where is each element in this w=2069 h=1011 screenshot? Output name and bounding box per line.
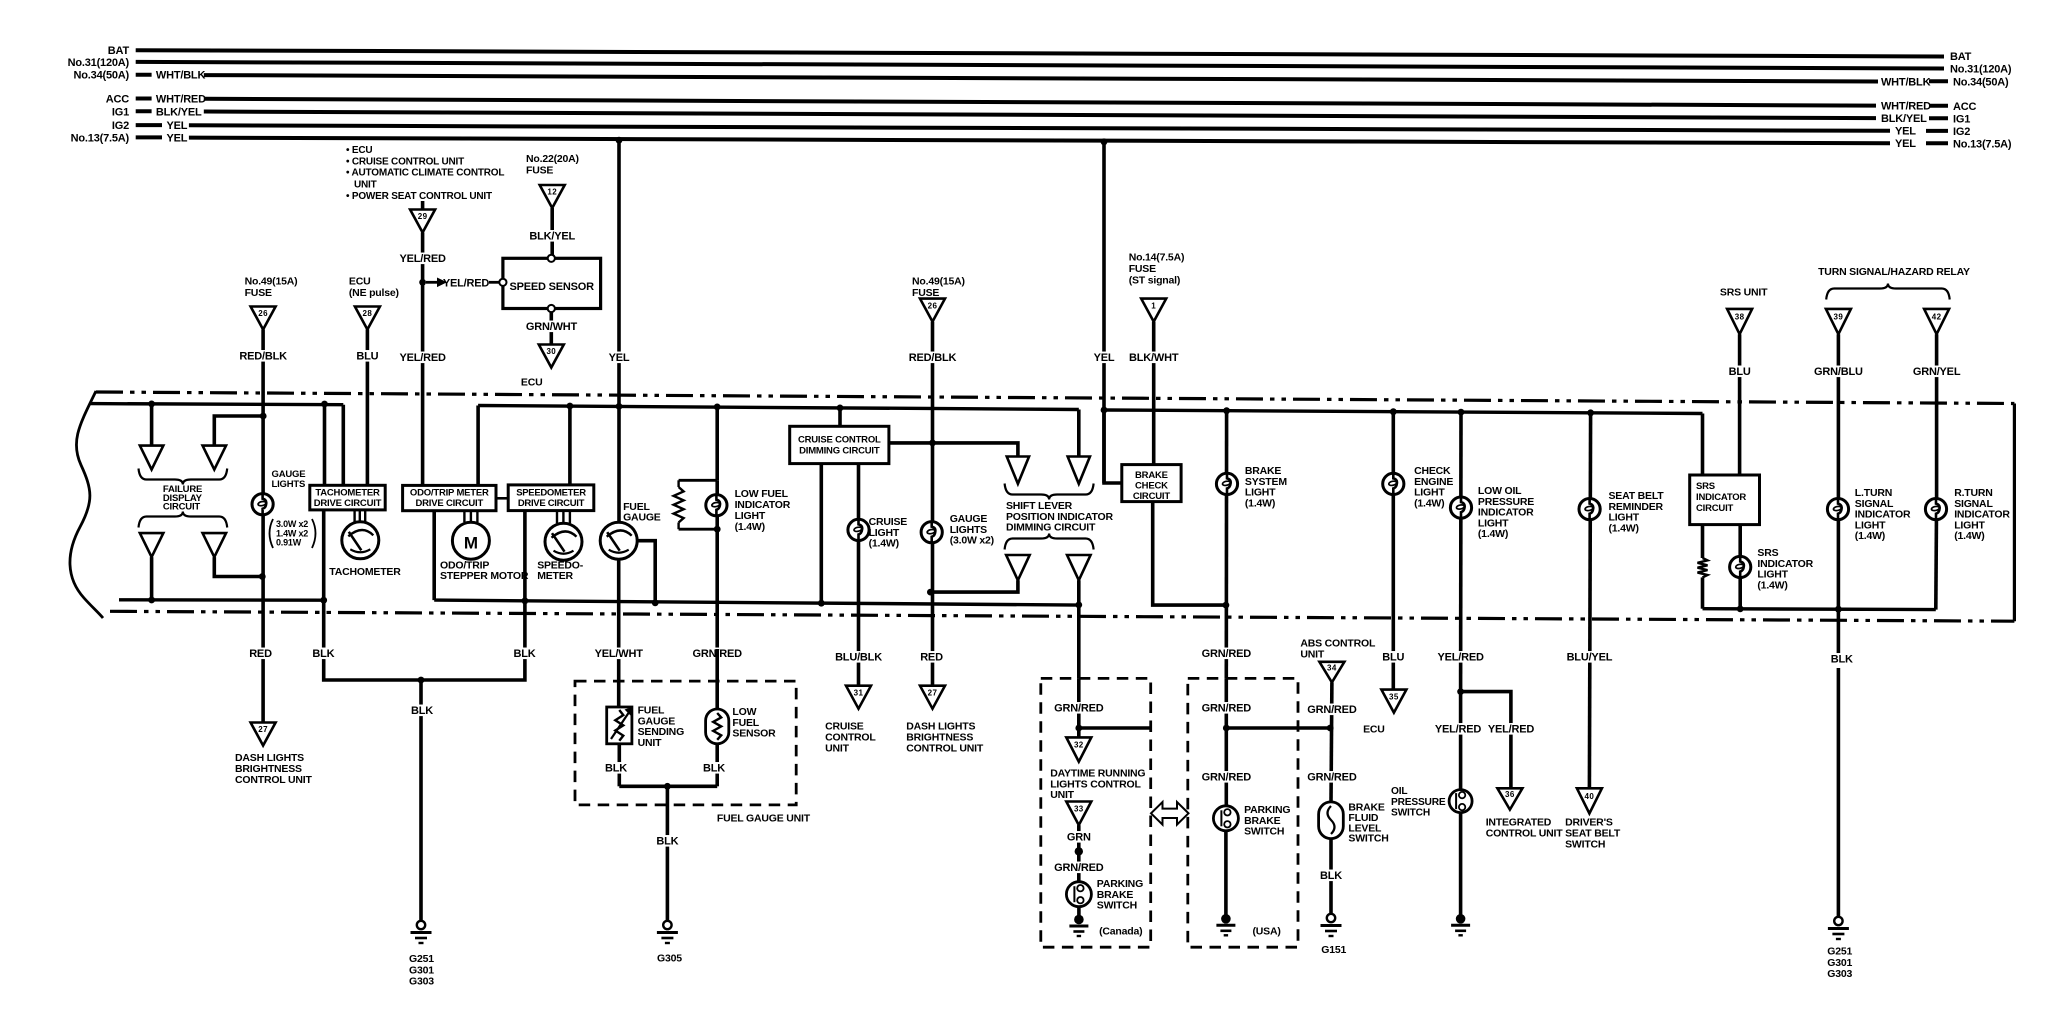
svg-text:34: 34 xyxy=(1327,663,1337,672)
bottom bus segment D xyxy=(1703,607,1936,611)
svg-text:No.34(50A): No.34(50A) xyxy=(1953,77,2009,89)
R.turn signal indicator bulb L11 xyxy=(1925,499,1946,520)
svg-text:• AUTOMATIC CLIMATE CONTROL: • AUTOMATIC CLIMATE CONTROL xyxy=(346,168,504,179)
wire BLK sending unit xyxy=(617,744,621,787)
svg-text:BLU/BLK: BLU/BLK xyxy=(835,652,882,664)
wire BLU connector38 to SRS indicator circuit xyxy=(1738,334,1742,475)
svg-text:No.34(50A): No.34(50A) xyxy=(74,70,130,82)
svg-text:(1.4W): (1.4W) xyxy=(869,538,899,550)
wire resistor to bottom bus xyxy=(1701,577,1705,608)
failure display triangle lower-right xyxy=(203,533,227,557)
svg-text:• POWER SEAT CONTROL UNIT: • POWER SEAT CONTROL UNIT xyxy=(346,191,492,202)
svg-text:DIMMING CIRCUIT: DIMMING CIRCUIT xyxy=(799,446,880,457)
connector 27 left xyxy=(251,723,276,746)
wire YEL/RED oil pressure xyxy=(1436,651,1485,663)
wire check engine light BLU xyxy=(1390,408,1397,415)
connector 36 xyxy=(1497,788,1522,809)
svg-text:SRS UNIT: SRS UNIT xyxy=(1720,287,1768,299)
ground G251 G301 G303 left xyxy=(417,921,425,929)
svg-text:CIRCUIT: CIRCUIT xyxy=(163,502,201,513)
connector 39 xyxy=(1826,309,1851,334)
svg-text:OIL: OIL xyxy=(1391,786,1407,797)
svg-text:BLK: BLK xyxy=(656,836,678,848)
wire cruise dim right to shift lever triangle 1 xyxy=(889,443,1018,457)
wire GRN/BLU connector39 to L.turn indicator xyxy=(1837,334,1841,498)
ground oil pressure switch xyxy=(1456,914,1466,924)
pins odo box to motor xyxy=(463,511,465,523)
wire ECU-list to connector 29 xyxy=(421,201,425,210)
svg-text:1: 1 xyxy=(1151,301,1156,310)
SRS indicator bulb L9 xyxy=(1730,556,1751,577)
svg-text:WHT/RED: WHT/RED xyxy=(1881,101,1931,113)
pin speed sensor bottom xyxy=(548,305,555,312)
connector 34 xyxy=(1319,662,1344,683)
bus BAT xyxy=(136,50,1944,56)
wire jog to failure display triangle 2 xyxy=(214,416,263,446)
wire L.turn bulb and BLK ground drop xyxy=(1837,499,1841,655)
svg-text:40: 40 xyxy=(1585,792,1595,801)
svg-text:YEL/RED: YEL/RED xyxy=(1488,724,1535,736)
shift lever triangle lower-left xyxy=(1006,555,1030,580)
svg-text:IG2: IG2 xyxy=(1953,126,1970,138)
wire GRN/RED to usa parking brake switch xyxy=(1225,678,1229,805)
wire BLK/YEL fuse12 to speed sensor xyxy=(550,208,554,255)
fuel gauge unit dashed box xyxy=(575,681,796,805)
wire oil switch to ground xyxy=(1459,813,1463,919)
wire BLK speedo ground join xyxy=(421,649,525,680)
odo/trip meter drive circuit box xyxy=(403,485,496,510)
wire label RED dash lights left xyxy=(249,648,272,660)
wire BLK join to ground G305 xyxy=(619,784,717,788)
svg-text:CRUISE CONTROL: CRUISE CONTROL xyxy=(798,435,881,446)
svg-text:29: 29 xyxy=(418,212,428,221)
svg-text:No.14(7.5A): No.14(7.5A) xyxy=(1129,252,1185,264)
parking brake switch S1 (Canada) xyxy=(1066,882,1091,907)
svg-text:BLU: BLU xyxy=(356,351,378,363)
svg-text:No.13(7.5A): No.13(7.5A) xyxy=(1953,138,2012,150)
svg-text:38: 38 xyxy=(1735,313,1745,322)
wire bus to cruise dimming box xyxy=(838,408,842,426)
svg-text:ECU: ECU xyxy=(1363,724,1385,736)
svg-text:YEL: YEL xyxy=(1895,126,1916,138)
svg-text:SENSOR: SENSOR xyxy=(732,728,776,740)
connector 30 xyxy=(539,345,564,368)
svg-text:SWITCH: SWITCH xyxy=(1097,900,1137,912)
cluster band torn left edge xyxy=(70,391,103,618)
wire SRS box right pin to SRS bulb xyxy=(1738,525,1742,610)
node junction tach ground xyxy=(320,597,327,604)
node junction low fuel feed xyxy=(714,404,721,411)
connector 40 xyxy=(1577,788,1602,813)
svg-text:GRN: GRN xyxy=(1067,832,1091,844)
wire speedo ground to bottom bus BLK xyxy=(523,511,527,649)
wire tach ground to bottom bus xyxy=(322,510,326,612)
svg-text:CONTROL UNIT: CONTROL UNIT xyxy=(906,743,984,755)
svg-text:BAT: BAT xyxy=(108,45,130,57)
wire RED/BLK connector26 into cluster xyxy=(261,330,265,417)
svg-text:30: 30 xyxy=(546,347,556,356)
svg-text:UNIT: UNIT xyxy=(354,180,377,191)
svg-text:BLU: BLU xyxy=(1382,652,1404,664)
svg-text:No.49(15A): No.49(15A) xyxy=(912,276,965,288)
SRS indicator circuit box xyxy=(1690,475,1760,525)
svg-text:ACC: ACC xyxy=(106,94,129,106)
cluster band bottom border xyxy=(110,611,2014,621)
wire RED/BLK through cluster (gauge lights) xyxy=(261,416,265,723)
odo/trip stepper motor M2 xyxy=(452,522,489,559)
bus ACC WHT/RED xyxy=(136,97,152,101)
svg-text:39: 39 xyxy=(1834,313,1844,322)
shift lever triangle upper-right xyxy=(1068,457,1090,484)
svg-text:DIMMING CIRCUIT: DIMMING CIRCUIT xyxy=(1006,522,1096,534)
svg-text:CHECK: CHECK xyxy=(1135,480,1168,491)
svg-text:(Canada): (Canada) xyxy=(1099,926,1142,938)
svg-text:(1.4W): (1.4W) xyxy=(1757,579,1787,591)
wire bus to speedo box pin xyxy=(568,406,572,485)
connector 32 xyxy=(1066,737,1091,761)
wire parallel top bar xyxy=(679,479,718,482)
bus IG2 YEL xyxy=(136,123,162,127)
svg-text:28: 28 xyxy=(363,309,373,318)
svg-text:BLK: BLK xyxy=(605,763,627,775)
cluster band right border xyxy=(2013,404,2016,622)
svg-text:ODO/TRIP METER: ODO/TRIP METER xyxy=(410,488,489,499)
svg-text:26: 26 xyxy=(928,301,938,310)
svg-text:DRIVE CIRCUIT: DRIVE CIRCUIT xyxy=(415,498,483,509)
tachometer meter M1 xyxy=(342,522,379,559)
svg-text:G303: G303 xyxy=(1827,968,1852,980)
svg-text:• ECU: • ECU xyxy=(346,145,372,156)
wire bus to tach box pin xyxy=(323,404,327,485)
wire parallel bottom bar xyxy=(679,528,718,531)
wire YEL/WHT to fuel gauge sending unit xyxy=(594,648,643,660)
speed sensor U1 xyxy=(503,258,601,308)
svg-text:RED/BLK: RED/BLK xyxy=(239,351,287,363)
resistor low fuel parallel xyxy=(677,480,679,487)
svg-text:G301: G301 xyxy=(409,964,434,976)
connector 29 xyxy=(410,210,435,233)
svg-text:GRN/BLU: GRN/BLU xyxy=(1814,366,1863,378)
pins tach box to meter xyxy=(353,510,355,522)
cruise control dimming circuit box xyxy=(790,426,889,463)
wire canada junction to box edge xyxy=(1079,726,1151,730)
svg-text:SPEEDOMETER: SPEEDOMETER xyxy=(516,487,586,498)
ground G151 xyxy=(1327,914,1335,922)
svg-text:GRN/RED: GRN/RED xyxy=(1054,703,1104,715)
svg-text:No.22(20A): No.22(20A) xyxy=(526,153,579,165)
svg-text:CIRCUIT: CIRCUIT xyxy=(1696,503,1734,514)
wire BLU to ECU connector 35 xyxy=(1382,651,1405,663)
svg-text:42: 42 xyxy=(1932,313,1942,322)
svg-text:WHT/BLK: WHT/BLK xyxy=(1881,76,1931,88)
svg-text:YEL: YEL xyxy=(1094,352,1115,364)
svg-text:IG1: IG1 xyxy=(1953,113,1970,125)
svg-text:YEL/RED: YEL/RED xyxy=(399,352,446,364)
svg-text:No.31(120A): No.31(120A) xyxy=(68,57,130,69)
bus inside cluster top-left xyxy=(90,404,343,405)
oil pressure switch S4 xyxy=(1449,790,1472,813)
svg-text:GRN/RED: GRN/RED xyxy=(1307,772,1357,784)
wire BLK sensor xyxy=(715,744,719,787)
svg-text:GRN/RED: GRN/RED xyxy=(1307,704,1357,716)
svg-text:GRN/RED: GRN/RED xyxy=(1202,648,1252,660)
pin speed sensor top xyxy=(548,255,555,262)
wire GRN below connector 33 xyxy=(1077,825,1081,894)
svg-text:TURN SIGNAL/HAZARD RELAY: TURN SIGNAL/HAZARD RELAY xyxy=(1818,266,1970,278)
svg-text:CIRCUIT: CIRCUIT xyxy=(1133,491,1171,502)
brace shift lever lower xyxy=(1005,534,1094,550)
canada dashed box xyxy=(1041,678,1151,947)
svg-text:GRN/RED: GRN/RED xyxy=(1054,862,1104,874)
wire shift lower-right to Canada GRN/RED drop xyxy=(1077,580,1081,678)
bus inside cluster segment2 xyxy=(478,406,1079,410)
svg-text:UNIT: UNIT xyxy=(825,743,849,755)
svg-text:(1.4W): (1.4W) xyxy=(1954,530,1984,542)
svg-text:YEL: YEL xyxy=(167,120,188,132)
wire shift lower-left to gauge light wire xyxy=(930,580,1018,592)
svg-text:G151: G151 xyxy=(1321,944,1346,956)
cluster band top border xyxy=(96,392,2014,404)
brace shift lever upper xyxy=(1005,484,1094,500)
bus No.13(7.5A) YEL xyxy=(136,135,162,139)
svg-text:RED/BLK: RED/BLK xyxy=(909,352,957,364)
svg-text:DRIVE CIRCUIT: DRIVE CIRCUIT xyxy=(518,498,585,509)
brake system light bulb L5 xyxy=(1216,473,1237,494)
shift lever triangle lower-right xyxy=(1067,555,1091,580)
svg-text:TACHOMETER: TACHOMETER xyxy=(329,566,401,578)
low fuel indicator bulb L2 xyxy=(715,480,719,649)
svg-text:(1.4W): (1.4W) xyxy=(1245,497,1275,509)
wire arrow YEL/RED to speed sensor xyxy=(426,281,437,284)
svg-text:YEL/RED: YEL/RED xyxy=(1437,652,1484,664)
svg-text:GRN/RED: GRN/RED xyxy=(1202,703,1252,715)
tachometer drive circuit box xyxy=(310,485,385,510)
svg-text:26: 26 xyxy=(258,309,268,318)
svg-text:BLK/YEL: BLK/YEL xyxy=(1881,113,1927,125)
wire fuel gauge right tap to bottom bus xyxy=(637,541,655,603)
svg-text:FUSE: FUSE xyxy=(245,287,272,299)
svg-text:METER: METER xyxy=(537,570,573,582)
svg-text:G303: G303 xyxy=(409,976,434,988)
svg-text:IG1: IG1 xyxy=(112,106,129,118)
wire bus corner to shift lever triangle 2 xyxy=(1077,410,1081,457)
cruise light bulb L3 xyxy=(848,519,869,540)
pin speed sensor left xyxy=(499,279,506,286)
svg-text:UNIT: UNIT xyxy=(1300,649,1324,661)
svg-text:SWITCH: SWITCH xyxy=(1391,808,1430,819)
svg-text:YEL/RED: YEL/RED xyxy=(399,253,446,265)
svg-text:PRESSURE: PRESSURE xyxy=(1391,797,1446,808)
svg-text:YEL: YEL xyxy=(1895,138,1916,150)
svg-text:BLK: BLK xyxy=(411,705,433,717)
connector 38 xyxy=(1727,309,1752,334)
svg-text:GRN/WHT: GRN/WHT xyxy=(526,321,578,333)
wire bus corner down to SRS box xyxy=(1701,414,1705,476)
svg-text:G251: G251 xyxy=(1827,946,1852,958)
svg-text:YEL/WHT: YEL/WHT xyxy=(595,648,644,660)
wire jog lower to gauge-light wire xyxy=(214,557,262,576)
connector 42 xyxy=(1924,309,1949,334)
connector 27 right xyxy=(920,686,945,709)
wire GRN/RED to low fuel sensor xyxy=(693,648,742,660)
wire BLU connector28 to tachometer drive circuit xyxy=(366,330,370,486)
low fuel sensor R2 xyxy=(715,649,719,709)
svg-text:INDICATOR: INDICATOR xyxy=(1696,492,1746,503)
failure display triangle upper-left xyxy=(140,446,164,470)
svg-text:SWITCH: SWITCH xyxy=(1244,826,1284,838)
wire cruise light branch xyxy=(857,464,861,686)
wire BLK/WHT connector1 to brake check circuit xyxy=(1152,322,1156,465)
svg-text:BLU: BLU xyxy=(1729,366,1751,378)
svg-text:CONTROL UNIT: CONTROL UNIT xyxy=(1486,828,1564,840)
connector 28 xyxy=(355,307,380,330)
svg-text:GRN/YEL: GRN/YEL xyxy=(1913,366,1961,378)
svg-text:BLU/YEL: BLU/YEL xyxy=(1567,652,1613,664)
wire YEL/RED branch to integrated control unit xyxy=(1461,692,1511,789)
wire brake system light GRN/RED xyxy=(1223,407,1230,414)
speedometer drive circuit box xyxy=(508,485,594,511)
ground canada xyxy=(1074,915,1084,925)
wire brake check ground to brake system wire xyxy=(1153,502,1226,605)
wire seat belt reminder BLU/YEL xyxy=(1587,409,1594,416)
svg-text:BLK: BLK xyxy=(312,648,334,660)
svg-text:GRN/RED: GRN/RED xyxy=(1202,772,1252,784)
ground G305 xyxy=(663,921,671,929)
wire SRS box left pin to resistor xyxy=(1701,525,1705,558)
svg-text:BLK/YEL: BLK/YEL xyxy=(156,106,202,118)
svg-text:M: M xyxy=(464,534,478,553)
svg-text:CONTROL UNIT: CONTROL UNIT xyxy=(235,774,313,786)
wire BLK tach ground join xyxy=(324,612,421,921)
wire BLU/BLK to cruise control unit xyxy=(834,651,883,663)
ground usa xyxy=(1221,914,1231,924)
svg-text:(1.4W): (1.4W) xyxy=(1478,528,1508,540)
svg-text:32: 32 xyxy=(1074,741,1084,750)
connector 26 second xyxy=(920,299,945,322)
brace turn signal relay xyxy=(1826,284,1950,300)
wire BLK to G151 xyxy=(1329,839,1333,916)
svg-text:SRS: SRS xyxy=(1696,481,1715,492)
svg-text:36: 36 xyxy=(1505,790,1515,799)
bus inside cluster segment3 xyxy=(1104,410,1703,414)
wire label RED dash lights right xyxy=(920,651,943,663)
svg-text:BLK: BLK xyxy=(513,648,535,660)
node junction cruise dimming feed xyxy=(837,405,844,412)
connector 31 xyxy=(846,686,871,709)
gauge lights bulb L1 xyxy=(252,494,273,515)
shift lever triangle upper-left xyxy=(1007,457,1029,484)
svg-text:BLK/YEL: BLK/YEL xyxy=(529,231,575,243)
svg-text:0.91W: 0.91W xyxy=(276,538,302,548)
wire YEL from No.13 bus to fuel gauge xyxy=(616,137,623,144)
node splice GRN/GRN-RED xyxy=(1075,847,1083,855)
svg-text:FUSE: FUSE xyxy=(1129,263,1156,275)
svg-text:(USA): (USA) xyxy=(1253,926,1281,938)
svg-text:(3.0W x2): (3.0W x2) xyxy=(950,535,994,547)
pins speedo box to meter xyxy=(556,511,558,524)
bus No.34(50A) WHT/BLK xyxy=(136,73,152,77)
svg-text:(1.4W): (1.4W) xyxy=(1855,530,1885,542)
svg-text:UNIT: UNIT xyxy=(1050,789,1074,801)
low oil pressure indicator bulb L7 xyxy=(1450,497,1471,518)
wire R.turn bulb to bottom bus xyxy=(1934,499,1938,610)
connector 12 xyxy=(540,185,565,208)
svg-text:TACHOMETER: TACHOMETER xyxy=(315,488,380,499)
svg-text:No.31(120A): No.31(120A) xyxy=(1950,64,2012,76)
svg-text:(NE pulse): (NE pulse) xyxy=(349,287,399,299)
svg-text:27: 27 xyxy=(928,688,938,697)
svg-text:No.49(15A): No.49(15A) xyxy=(245,276,298,288)
svg-text:G251: G251 xyxy=(409,953,434,965)
wire bus segment2 corner to odo box xyxy=(476,406,480,486)
check engine light bulb L6 xyxy=(1383,473,1404,494)
bottom bus segment B xyxy=(434,600,1079,605)
svg-text:BRAKE: BRAKE xyxy=(1135,470,1168,481)
wire triangle to bottom bus xyxy=(150,557,154,600)
wire to failure display triangle 1 xyxy=(150,404,154,446)
brace failure display lower xyxy=(139,512,228,528)
svg-text:WHT/BLK: WHT/BLK xyxy=(156,70,206,82)
usa dashed box xyxy=(1188,678,1298,947)
svg-text:12: 12 xyxy=(547,188,557,197)
svg-text:ECU: ECU xyxy=(521,377,543,389)
svg-text:DRIVE CIRCUIT: DRIVE CIRCUIT xyxy=(314,498,382,509)
wire GRN/RED brake system light drop labels xyxy=(1202,648,1251,660)
brake check circuit box xyxy=(1122,465,1181,502)
svg-text:ACC: ACC xyxy=(1953,101,1976,113)
svg-text:(1.4W): (1.4W) xyxy=(1414,497,1444,509)
wire GRN/WHT speed sensor to connector 30 xyxy=(549,312,553,344)
svg-text:YEL/RED: YEL/RED xyxy=(443,278,490,290)
wire YEL from No.13 bus to brake check circuit xyxy=(1101,138,1108,145)
svg-text:BLK: BLK xyxy=(703,763,725,775)
wire bus corner down to tachometer drive circuit xyxy=(341,405,345,486)
svg-text:RED: RED xyxy=(920,652,943,664)
L.turn signal indicator bulb L10 xyxy=(1827,499,1848,520)
svg-text:BLK/WHT: BLK/WHT xyxy=(1129,352,1179,364)
svg-text:(1.4W): (1.4W) xyxy=(735,521,765,533)
node junction YEL/RED xyxy=(419,279,426,286)
wire GRN/RED daytime running lights xyxy=(1077,678,1081,737)
svg-text:LIGHTS: LIGHTS xyxy=(272,479,306,490)
svg-text:ECU: ECU xyxy=(349,276,371,288)
resistor SRS xyxy=(1698,558,1708,577)
svg-text:YEL: YEL xyxy=(609,352,630,364)
svg-text:YEL: YEL xyxy=(167,132,188,144)
svg-text:(1.4W): (1.4W) xyxy=(1609,522,1639,534)
wire cruise dim ground pin xyxy=(819,464,823,604)
wire fuel gauge bottom YEL/WHT xyxy=(617,559,621,707)
wire YEL corner into brake check box xyxy=(1104,410,1122,483)
wire link odo to speedo box xyxy=(496,497,508,500)
svg-text:FUSE: FUSE xyxy=(526,165,553,177)
wire RED/BLK fuse to cruise dimming junction xyxy=(931,322,935,443)
wire to canada ground xyxy=(1077,907,1081,920)
wire to usa ground xyxy=(1224,831,1228,919)
svg-text:SWITCH: SWITCH xyxy=(1565,839,1605,851)
bus No.31(120A) xyxy=(136,62,1944,69)
brake fluid level switch S3 xyxy=(1319,802,1344,839)
wire low oil pressure light YEL/RED xyxy=(1458,409,1465,416)
connector 1 xyxy=(1141,299,1166,322)
wire usa junction to ABS wire xyxy=(1226,726,1330,730)
svg-text:RED: RED xyxy=(249,648,272,660)
svg-text:GAUGE: GAUGE xyxy=(623,512,661,524)
wire BLU/YEL to driver's seat belt switch xyxy=(1565,651,1614,663)
seat belt reminder bulb L8 xyxy=(1579,499,1600,520)
svg-text:G301: G301 xyxy=(1827,957,1852,969)
svg-text:STEPPER MOTOR: STEPPER MOTOR xyxy=(440,570,529,582)
